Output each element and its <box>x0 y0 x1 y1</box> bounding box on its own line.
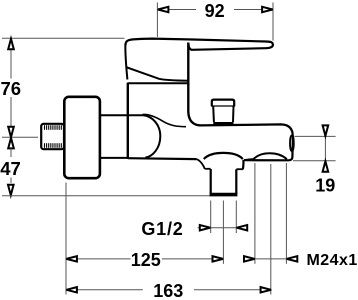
svg-text:163: 163 <box>153 281 183 300</box>
escutcheon flange <box>64 97 100 178</box>
shower outlet skirt left fairing <box>197 159 205 169</box>
dimension 76 arrow up <box>8 39 14 50</box>
aerator lens bump <box>253 153 287 159</box>
dimension 47 line <box>10 149 12 158</box>
connection cylinder bottom line <box>100 157 128 159</box>
M24x1 dimension line <box>244 258 298 260</box>
svg-text:47: 47 <box>0 158 21 179</box>
extension line outlet bottom (47 reference) <box>2 195 211 197</box>
M24x1 extension lines <box>254 163 256 264</box>
dimension 163 arrow left <box>66 287 77 292</box>
line between skirt and aerator lens <box>244 159 253 160</box>
dimension 76 arrow down (bowtie top) <box>8 127 14 138</box>
M24x1 arrow right-pointing <box>244 256 255 261</box>
diverter knob cap <box>212 100 234 107</box>
shower outlet pipe bottom cap <box>210 193 238 197</box>
dimension 19 vertical line <box>324 126 326 173</box>
svg-text:76: 76 <box>1 78 22 99</box>
dimension 125 line <box>66 258 131 260</box>
svg-text:M24x1: M24x1 <box>307 252 358 269</box>
body dome end arc <box>143 115 160 157</box>
handle lever outline <box>125 39 272 50</box>
dimension 163 arrow right <box>261 287 272 292</box>
G1/2 arrow right-pointing <box>200 225 211 230</box>
cartridge neck top line <box>127 82 188 84</box>
svg-text:G1/2: G1/2 <box>141 219 183 239</box>
spout right edge and bottom <box>245 136 293 160</box>
body left edge <box>127 83 129 159</box>
body transition S-curve <box>143 114 187 126</box>
spout top edge <box>201 124 293 136</box>
svg-text:125: 125 <box>131 250 161 270</box>
dimension 92 line <box>157 9 196 11</box>
dimension 19 arrow down <box>323 125 329 135</box>
dimension 76 line <box>10 48 12 79</box>
dimension 92 arrow right <box>262 7 273 12</box>
dimension 19 top reference line <box>295 135 336 137</box>
handle grip bottom slant <box>127 67 188 80</box>
M24x1 arrow left-pointing <box>287 256 298 261</box>
dimension 19 bottom reference line <box>293 160 336 162</box>
diverter knob bottom band <box>213 122 233 125</box>
spout tip opening ellipse <box>290 135 294 151</box>
wall pipe thread teeth bottom <box>44 143 46 148</box>
shower outlet skirt right edge <box>242 160 245 170</box>
grip and neck right edge with corner into spout <box>188 43 200 126</box>
dimension 19 arrow up <box>323 161 329 172</box>
dimension 125 extension line left (wall face) <box>65 183 67 295</box>
shower outlet skirt dome <box>204 153 243 159</box>
svg-text:19: 19 <box>315 176 335 196</box>
wall pipe thread teeth top <box>45 125 62 148</box>
dimension 47 arrow up (bowtie bottom) <box>8 138 14 149</box>
dimension 92 arrow left <box>158 7 169 12</box>
centerline of wall pipe <box>2 136 38 138</box>
diverter knob body sides <box>212 106 215 122</box>
dimension 47 arrow down <box>8 185 14 196</box>
skirt bottom edges <box>205 168 211 170</box>
G1/2 extension lines <box>210 201 212 234</box>
handle grip left edge <box>125 44 127 80</box>
dimension 163 line <box>66 289 143 291</box>
shower outlet pipe sides <box>210 169 212 194</box>
body bottom line <box>128 157 197 160</box>
connection cylinder top line <box>100 114 143 116</box>
dimension 92 extension line left <box>156 3 158 38</box>
dimension 92 extension line right <box>272 3 274 41</box>
G1/2 arrow left-pointing <box>237 225 248 230</box>
svg-text:92: 92 <box>205 1 225 21</box>
dimension 125 arrow left <box>66 256 77 261</box>
dimension 125 arrow right <box>213 256 224 261</box>
wall pipe threaded connector <box>41 124 64 149</box>
dimension 76 top extension line <box>2 37 125 39</box>
G1/2 dimension line <box>198 227 248 229</box>
